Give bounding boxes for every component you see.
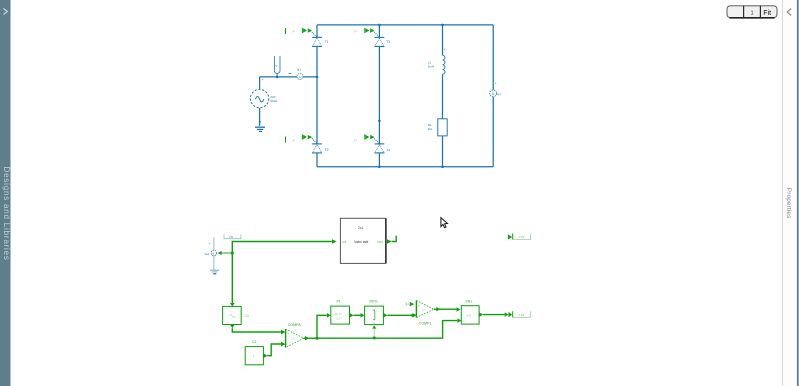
arrow SR1 output [479, 312, 483, 317]
arrow out of C2 [264, 353, 268, 358]
thyristor T1 [311, 31, 322, 47]
block C1 sine [223, 306, 250, 324]
wire SR1 to tag [483, 314, 505, 316]
svg-text:V: V [275, 64, 277, 68]
arrow wire end [505, 312, 509, 317]
svg-text:In1: In1 [343, 240, 347, 244]
left sidebar [0, 0, 11, 386]
svg-text:5mH: 5mH [428, 64, 434, 68]
flipflop SR1 [461, 299, 479, 324]
svg-text:Vabc tabl: Vabc tabl [354, 240, 369, 244]
arrow COMP1 output [436, 307, 440, 311]
subsystem block SS1 [340, 218, 386, 263]
ground (voltmeter) [210, 270, 219, 274]
svg-text:SR: SR [467, 314, 472, 318]
arrow into subsystem In1 [332, 239, 337, 244]
wire voltmeter output [222, 252, 232, 254]
svg-text:-: - [288, 343, 289, 347]
inductor L1 [443, 55, 445, 74]
svg-text:+: + [287, 331, 289, 335]
thyristor T2 [311, 137, 322, 153]
svg-text:+: + [209, 242, 211, 246]
svg-text:Properties: Properties [785, 188, 792, 219]
svg-text:T2: T2 [325, 148, 329, 152]
gate port T2 [286, 134, 313, 142]
right panel background [783, 0, 797, 386]
ac voltage source Vs [250, 78, 278, 108]
arrow into P1 [327, 313, 331, 318]
wire inductor branch [442, 25, 444, 167]
svg-text:lg N: lg N [336, 317, 341, 321]
svg-text:T14: T14 [519, 313, 525, 317]
svg-text:2s1: 2s1 [358, 226, 364, 230]
svg-text:Ia1: Ia1 [297, 68, 302, 72]
voltage probe fuse [274, 56, 280, 77]
wire top DC bus [317, 24, 493, 26]
gate port T4 [354, 134, 375, 141]
left sidebar chevron [3, 9, 7, 15]
junction COMP1 input [411, 314, 414, 317]
node junction bottom mid [378, 166, 381, 169]
svg-text:Va1: Va1 [204, 252, 209, 256]
wire left bridge leg [316, 25, 318, 167]
arrow COMPA output [305, 336, 309, 340]
node tag Va [224, 234, 241, 239]
svg-text:x1: x1 [292, 337, 295, 341]
zoom button group [727, 6, 777, 18]
arrow into INTG [361, 313, 365, 318]
voltmeter Va1 [204, 238, 217, 271]
svg-text:T1: T1 [325, 40, 329, 44]
arrow INTG output [384, 313, 388, 318]
wire subsystem output stub [392, 236, 397, 242]
svg-text:T3: T3 [386, 40, 390, 44]
input tag b [406, 302, 414, 306]
wire C1 to COMPA [232, 328, 281, 332]
arrow into COMPA plus [281, 330, 285, 335]
svg-text:1: 1 [751, 11, 754, 17]
thyristor T3 [373, 31, 384, 47]
wire sync bus [317, 321, 457, 339]
mouse cursor [441, 218, 448, 228]
resistor R1 [438, 119, 447, 136]
svg-text:Fit: Fit [763, 10, 771, 17]
arrow out of C1 [230, 325, 235, 329]
comparator COMP1 [416, 300, 434, 325]
svg-text:+: + [441, 112, 443, 116]
right panel chevron [787, 9, 791, 16]
arrow into COMPA minus [281, 342, 285, 347]
node dot source stem [259, 121, 261, 123]
svg-text:1: 1 [253, 354, 255, 358]
svg-text:CA1: CA1 [244, 314, 250, 318]
svg-text:INTG: INTG [370, 300, 378, 304]
node junction top inductor [441, 24, 444, 27]
node dot mid leg [378, 120, 381, 123]
arrow into COMP1 minus [413, 313, 417, 318]
gate port T3 [354, 28, 375, 33]
junction reset tap [373, 337, 376, 340]
svg-text:+: + [443, 48, 445, 52]
svg-text:Av1: Av1 [496, 92, 501, 96]
wire middle bridge leg [378, 25, 380, 167]
constant block C2 [245, 340, 263, 365]
svg-text:g3: g3 [354, 29, 357, 33]
svg-text:50Hz: 50Hz [270, 99, 278, 103]
wire P1 to INTG [354, 314, 361, 316]
svg-text:g2: g2 [292, 138, 295, 142]
node junction probe [276, 76, 279, 79]
svg-text:C2: C2 [252, 340, 256, 344]
gate port T1 [286, 28, 313, 34]
node junction bottom inductor [441, 166, 444, 169]
svg-text:g1: g1 [292, 29, 295, 33]
wire COMP1 to SR1 [434, 308, 456, 310]
node junction top mid [378, 24, 381, 27]
ammeter Ia1 [289, 68, 303, 80]
svg-text:T4: T4 [386, 149, 390, 153]
ammeter Io [490, 82, 502, 97]
svg-text:P1: P1 [337, 300, 341, 304]
svg-text:-: - [418, 314, 419, 318]
arrow into C1 [230, 303, 235, 307]
block P1 [331, 300, 350, 325]
svg-text:COMP1: COMP1 [419, 322, 432, 326]
svg-text:+: + [418, 303, 420, 307]
wire INTG to COMP1 [387, 314, 412, 316]
arrow into SR1 set [457, 307, 461, 312]
wire reset tap [373, 329, 375, 338]
svg-text:180'11': 180'11' [333, 312, 342, 316]
wire bus to P1 [317, 315, 327, 338]
comparator COMPA [286, 323, 304, 347]
wire C2 to COMPA [267, 344, 281, 356]
svg-text:Ov1: Ov1 [378, 240, 384, 244]
goto tag T14 [508, 311, 530, 317]
wire right load leg [492, 25, 494, 167]
right edge bar [797, 0, 799, 386]
svg-text:+: + [495, 82, 497, 86]
thyristor T4 [373, 137, 384, 153]
arrow voltmeter output [218, 251, 222, 255]
wire Va to subsystem [232, 242, 331, 304]
wire bottom DC bus [317, 166, 493, 168]
svg-text:x1: x1 [422, 308, 425, 312]
arrow into SR1 reset [457, 318, 461, 323]
arrow INTG reset [372, 325, 376, 328]
integrator INTG [365, 300, 384, 325]
goto tag T23 [508, 233, 531, 239]
node junction ac input [316, 76, 319, 79]
junction sync bus [316, 337, 319, 340]
svg-text:+: + [262, 78, 264, 82]
wire ac source to bridge [260, 77, 317, 126]
svg-text:g4: g4 [354, 138, 357, 142]
svg-text:COMPA: COMPA [288, 323, 302, 327]
right panel separator [782, 0, 784, 386]
ground (power) [255, 127, 265, 131]
wire COMPA to bus [304, 337, 317, 339]
svg-text:SR1:: SR1: [466, 299, 474, 303]
svg-text:Designs and Libraries: Designs and Libraries [2, 167, 11, 261]
arrow subsystem Out1 [387, 239, 392, 244]
arrow P1 output [350, 313, 354, 318]
svg-text:T23: T23 [519, 235, 525, 239]
junction voltmeter tap [231, 252, 234, 255]
